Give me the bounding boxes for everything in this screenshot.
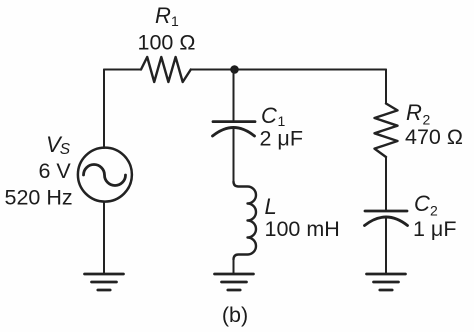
wire top horizontal to right branch bbox=[191, 69, 386, 71]
node junction dot bbox=[230, 65, 239, 74]
wire left vertical to source bbox=[103, 70, 105, 149]
wire right vertical to R2 bbox=[385, 70, 387, 104]
wire below source bbox=[103, 202, 105, 273]
label R2 bbox=[406, 100, 431, 128]
svg-text:2 μF: 2 μF bbox=[260, 127, 303, 151]
svg-text:100 mH: 100 mH bbox=[265, 217, 340, 241]
svg-text:C: C bbox=[261, 103, 277, 128]
svg-text:1: 1 bbox=[171, 13, 179, 29]
svg-text:1 μF: 1 μF bbox=[413, 217, 456, 241]
wire middle branch from node to C1 bbox=[233, 70, 235, 121]
svg-text:R: R bbox=[406, 100, 422, 125]
ground (right) bbox=[367, 274, 406, 290]
wire inductor to ground bbox=[233, 260, 235, 274]
svg-text:6 V: 6 V bbox=[39, 159, 72, 183]
wire C1 to inductor bbox=[233, 129, 235, 182]
resistor R2 bbox=[375, 104, 398, 158]
svg-text:520 Hz: 520 Hz bbox=[5, 186, 73, 210]
label C2 bbox=[414, 191, 438, 219]
wire R2 to C2 bbox=[385, 157, 387, 210]
svg-text:S: S bbox=[60, 141, 71, 158]
ground (middle) bbox=[215, 274, 254, 290]
svg-text:470 Ω: 470 Ω bbox=[405, 125, 463, 149]
wire top-left horizontal bbox=[104, 69, 141, 71]
inductor L bbox=[234, 182, 257, 260]
capacitor C1 bbox=[213, 122, 256, 136]
capacitor C2 bbox=[365, 211, 408, 226]
svg-text:C: C bbox=[414, 191, 430, 216]
voltage source VS bbox=[78, 148, 132, 202]
label VS bbox=[46, 132, 71, 158]
ground (left) bbox=[85, 274, 124, 290]
resistor R1 bbox=[141, 57, 191, 82]
svg-text:(b): (b) bbox=[222, 303, 248, 327]
svg-text:R: R bbox=[155, 3, 171, 28]
svg-text:100 Ω: 100 Ω bbox=[138, 31, 196, 55]
label R1 bbox=[155, 3, 179, 29]
svg-text:L: L bbox=[265, 194, 277, 219]
wire C2 to ground bbox=[385, 218, 387, 273]
label C1 bbox=[261, 103, 286, 129]
